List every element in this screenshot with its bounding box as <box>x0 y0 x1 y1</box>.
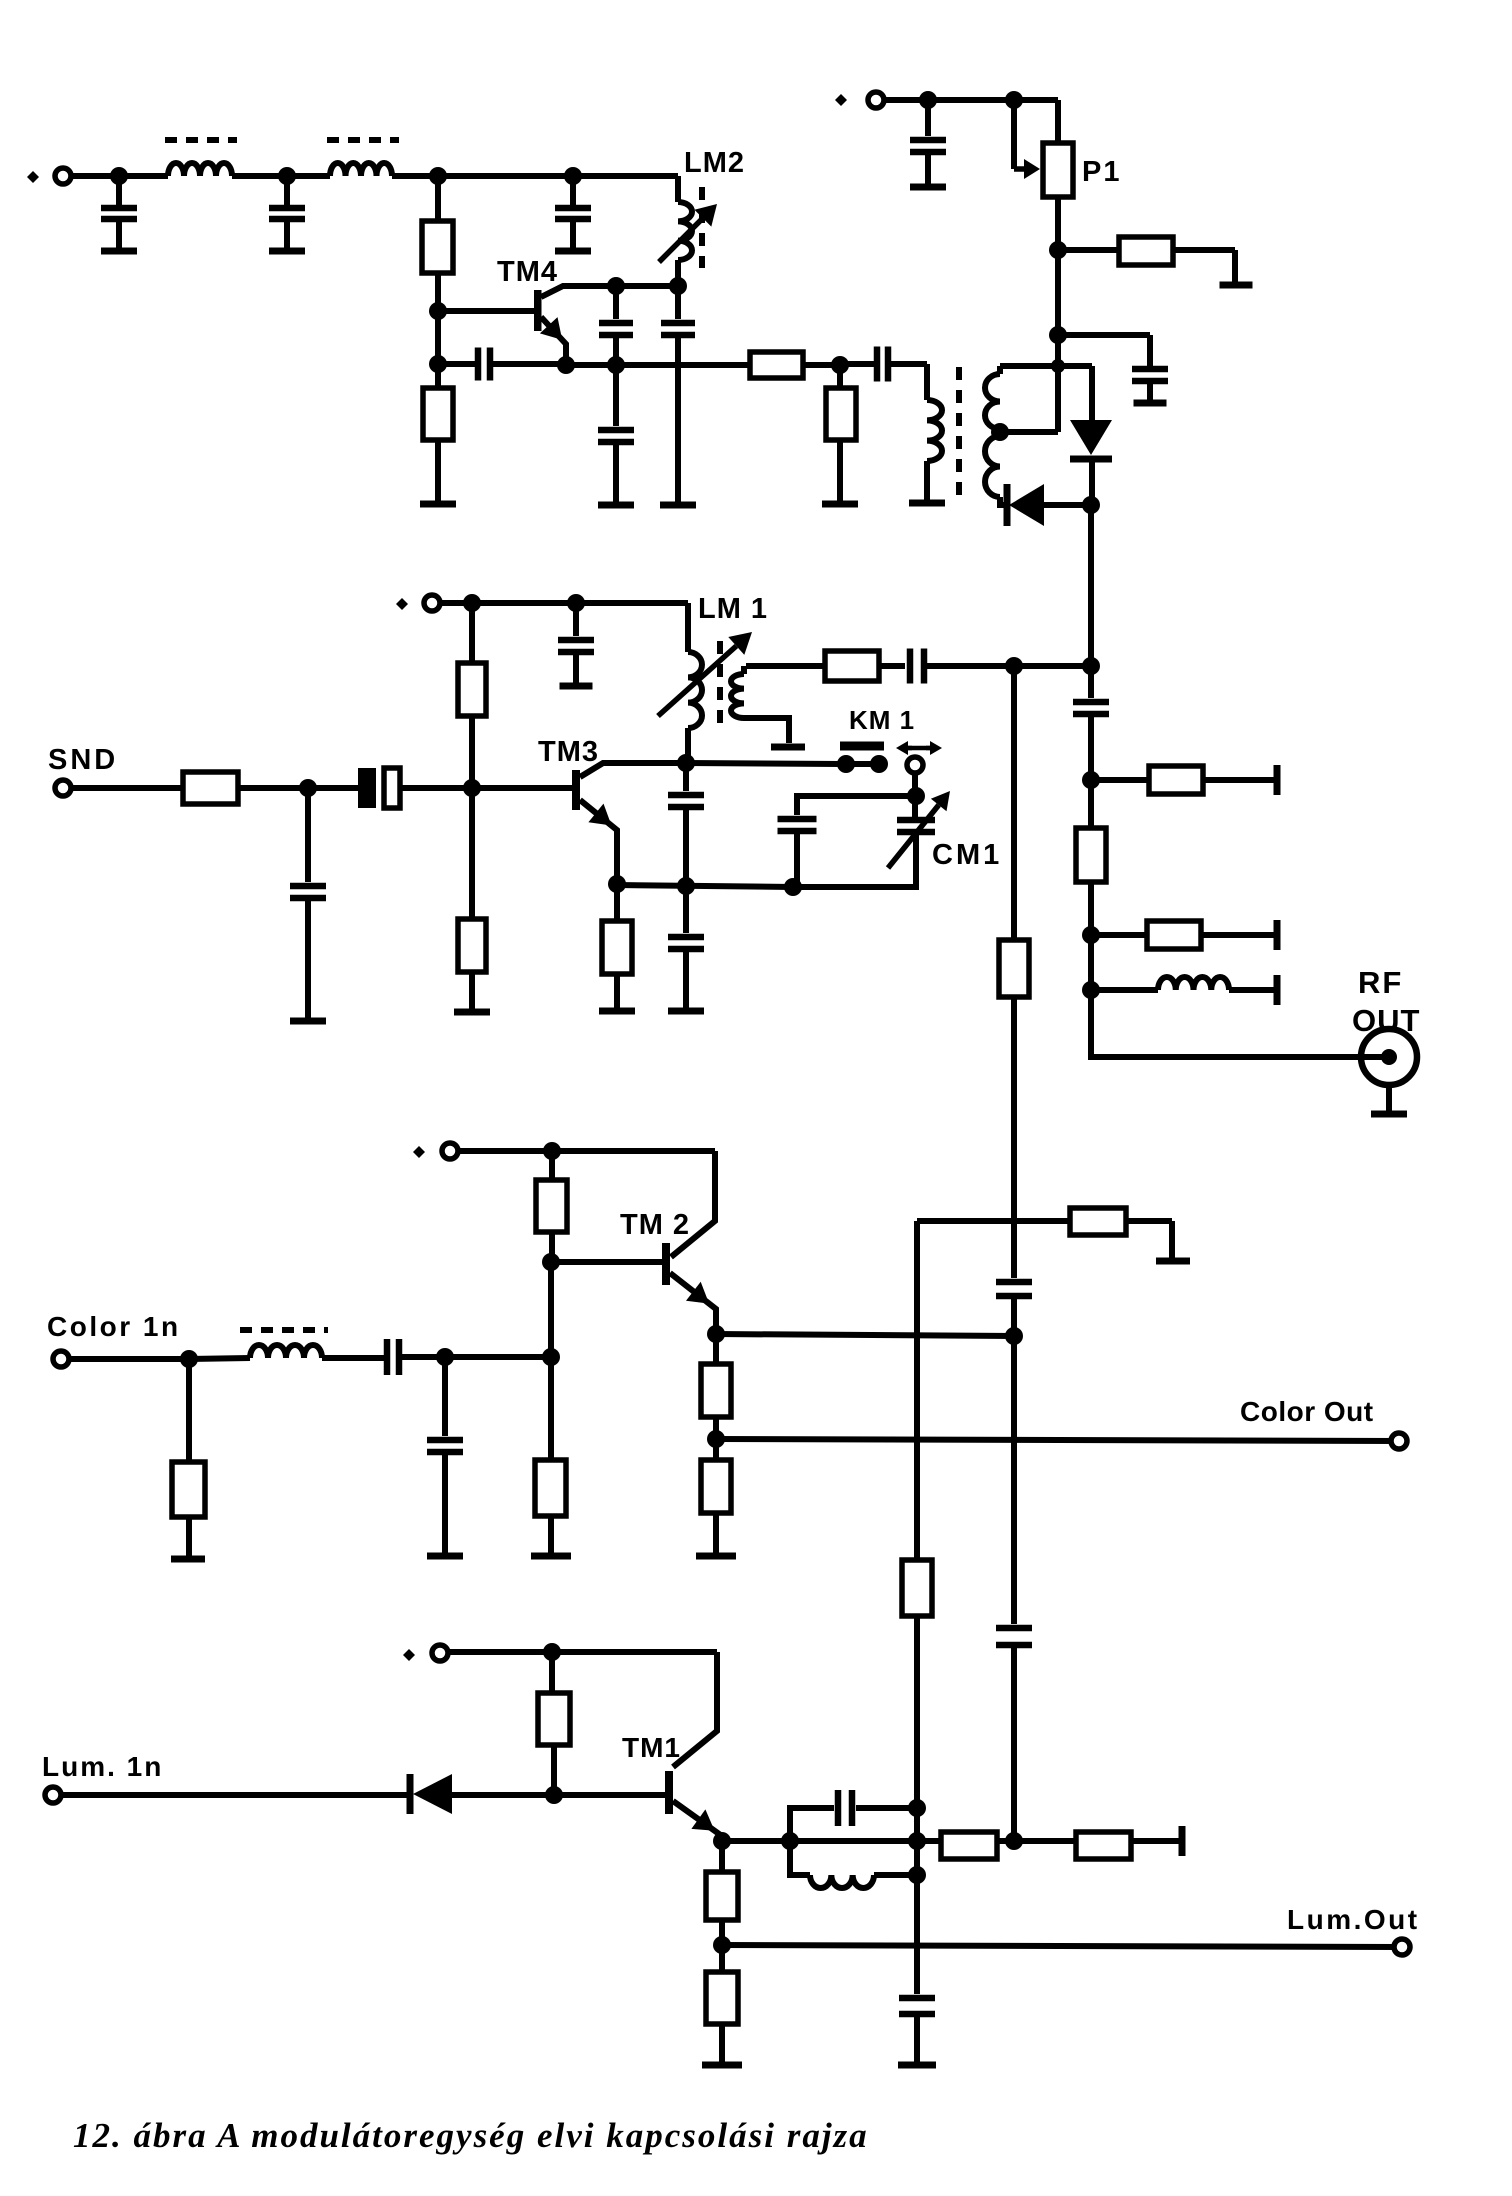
resistor R19 input termination <box>186 1359 192 1462</box>
node P1 lower junction <box>1049 241 1067 259</box>
svg-text:Lum. 1n: Lum. 1n <box>42 1751 163 1782</box>
terminal top-left V+ input <box>55 168 71 184</box>
resistor R10 TM3 emitter <box>614 884 620 921</box>
diode D3 clamp <box>407 1774 414 1814</box>
wire Color Out line <box>716 1439 1399 1441</box>
node C21 junction <box>436 1348 454 1366</box>
node CM1 top junction <box>907 787 925 805</box>
node R3-R4 junction <box>831 356 849 374</box>
transformer TR1 primary <box>888 361 927 367</box>
resistor R25 TM1 emitter upper <box>719 1841 725 1872</box>
node collector-C5 <box>607 277 625 295</box>
svg-text:CM1: CM1 <box>932 839 1002 871</box>
capacitor C7 emitter bypass <box>613 365 619 426</box>
node TM4 base <box>429 302 447 320</box>
node RF divider top <box>1082 771 1100 789</box>
resistor R12 divider <box>1088 780 1094 828</box>
node C14 bottom <box>677 877 695 895</box>
wire detector output down <box>1088 505 1094 666</box>
switch KM1 left contact <box>837 755 855 773</box>
resistor R4 to ground <box>837 365 843 388</box>
terminal Lum Out <box>1394 1939 1410 1955</box>
capacitor C2 to ground <box>284 176 290 205</box>
svg-text:TM 2: TM 2 <box>620 1209 690 1241</box>
wire middle V+ rail <box>440 600 688 606</box>
wire TM3 base <box>472 785 572 791</box>
transistor TM1 <box>665 1771 673 1814</box>
plus mark color supply <box>413 1146 425 1158</box>
svg-text:TM4: TM4 <box>497 256 558 288</box>
terminal lum V+ input <box>432 1645 448 1661</box>
terminal SND input <box>55 780 71 796</box>
svg-text:TM3: TM3 <box>538 736 599 768</box>
node C16 bottom <box>784 878 802 896</box>
wire emitter to LC <box>722 1838 790 1844</box>
wire base bias down <box>548 1262 554 1357</box>
capacitor C19 bus <box>996 1625 1032 1632</box>
capacitor C11 rail bypass <box>573 603 579 636</box>
capacitor C1 to ground <box>116 176 122 205</box>
node junction R22 top <box>543 1643 561 1661</box>
terminal Color In <box>53 1351 69 1367</box>
resistor R9 TM3 base lower <box>469 788 475 919</box>
resistor R22 TM1 base feed <box>549 1652 555 1693</box>
wire feed vertical <box>914 1221 920 1560</box>
resistor R16 feed <box>902 1560 932 1616</box>
wire TM4 base <box>438 308 534 314</box>
capacitor C20 color coupling <box>384 1339 391 1375</box>
wire TM2 base <box>551 1259 662 1265</box>
node junction at C9 <box>919 91 937 109</box>
wire to RF connector <box>1091 990 1362 1057</box>
node junction TM4 feed <box>429 167 447 185</box>
resistor R3 oscillator coupling <box>750 352 803 378</box>
wire to transformer center tap <box>1055 335 1061 432</box>
node bias-colorin junction <box>542 1348 560 1366</box>
node P1 wiper feed <box>1005 91 1023 109</box>
wire top-left V+ rail <box>71 173 168 179</box>
resistor R13 to pin <box>1091 932 1147 938</box>
svg-text:RF: RF <box>1358 965 1403 1000</box>
resistor R2 TM4 base to ground <box>435 364 441 388</box>
capacitor C9 to ground <box>925 100 931 136</box>
wire color input <box>69 1356 189 1362</box>
node RF divider low <box>1082 981 1100 999</box>
resistor R11 to pin <box>1091 777 1149 783</box>
inductor L4 with core <box>189 1358 250 1359</box>
wire collector to LM2 bottom <box>616 283 678 289</box>
transistor TM4 <box>534 290 542 331</box>
node TR1 center tap <box>991 423 1009 441</box>
resistor R23 lum series <box>917 1838 941 1844</box>
wire lum V+ rail <box>448 1649 717 1655</box>
plus mark top-left supply <box>27 171 39 183</box>
svg-text:Color Out: Color Out <box>1240 1396 1374 1427</box>
transformer TR1 secondary top half <box>997 366 1003 374</box>
capacitor C5 <box>613 286 619 319</box>
resistor R14 bus <box>999 940 1029 997</box>
node C10 junction <box>1049 326 1067 344</box>
inductor L5 peaking <box>790 1841 810 1875</box>
capacitor C18 bus <box>996 1279 1032 1286</box>
node LM2 bottom junction <box>669 277 687 295</box>
node SND filter junction <box>299 779 317 797</box>
capacitor C10 to ground <box>1058 332 1150 338</box>
resistor R7 RF coupling <box>825 651 879 681</box>
node TM3 base <box>463 779 481 797</box>
capacitor C6 LM2 bottom <box>675 286 681 319</box>
inductor LM1 variable <box>685 603 691 652</box>
wire collector to KM1 <box>686 763 840 764</box>
capacitor C15 emitter to ground <box>683 886 689 933</box>
node TM1 emitter <box>713 1832 731 1850</box>
capacitor C17 detector <box>1088 666 1094 698</box>
svg-text:LM 1: LM 1 <box>698 593 768 625</box>
wire top-right V+ rail <box>884 97 1058 103</box>
node C5 bottom <box>607 356 625 374</box>
transistor TM3 <box>572 770 580 810</box>
potentiometer P1 <box>1043 143 1073 197</box>
node RF divider mid <box>1082 926 1100 944</box>
wire color V+ rail <box>458 1148 715 1154</box>
node junction at C5 top <box>564 167 582 185</box>
node TM3 collector - LM1 <box>677 754 695 772</box>
terminal middle V+ input <box>424 595 440 611</box>
inductor LM2 variable <box>573 173 678 179</box>
inductor L3 to pin <box>1091 987 1158 993</box>
node color input junction <box>180 1350 198 1368</box>
diode D2 detector <box>1004 484 1011 526</box>
wire LM1 secondary to R7 <box>746 663 825 669</box>
capacitor C14 collector-emitter <box>683 763 689 791</box>
resistor R15 to ground <box>1070 1208 1126 1235</box>
node coupling-detector junction <box>1082 657 1100 675</box>
wire SND input <box>71 785 183 791</box>
switch KM1 slide arrow <box>903 746 935 751</box>
wire P1 net down <box>1055 250 1061 335</box>
node coupling-vertical junction <box>1005 657 1023 675</box>
wire TM4 emitter row <box>566 362 750 368</box>
wire cap top link <box>797 796 916 815</box>
node TM3 emitter <box>608 875 626 893</box>
node LC right <box>908 1832 926 1850</box>
terminal Color Out <box>1391 1433 1407 1449</box>
switch KM1 right contact <box>870 755 888 773</box>
resistor R18 TM2 base lower <box>548 1357 554 1460</box>
node LC left <box>781 1832 799 1850</box>
resistor R26 TM1 emitter lower <box>719 1945 725 1972</box>
diode D1 detector <box>1089 366 1095 420</box>
svg-text:Lum.Out: Lum.Out <box>1287 1904 1420 1935</box>
node TM1 base junction <box>545 1786 563 1804</box>
wire Lum Out line <box>722 1945 1402 1947</box>
wire KM1 pole down <box>912 773 918 818</box>
resistor R20 TM2 emitter upper <box>713 1334 719 1364</box>
pin stub bar 4 <box>1179 1826 1186 1856</box>
capacitor C23 lum bypass <box>914 1875 920 1994</box>
svg-text:12. ábra A modulátoregység elv: 12. ábra A modulátoregység elvi kapcsolá… <box>73 2116 869 2155</box>
transistor TM2 <box>662 1243 670 1285</box>
node color out junction <box>707 1430 725 1448</box>
node bus TM2 emitter junction <box>1005 1327 1023 1345</box>
node LC coil right <box>908 1866 926 1884</box>
resistor R24 to pin <box>1014 1838 1076 1844</box>
inductor L1 with core <box>168 163 232 176</box>
capacitor C13 SND to ground <box>305 788 311 882</box>
svg-text:LM2: LM2 <box>684 147 745 179</box>
wire P1 wiper <box>1011 100 1017 169</box>
node TM4 emitter row left <box>429 355 447 373</box>
wire relay feed row <box>917 1218 1070 1224</box>
pin stub bar 1 <box>1274 765 1281 795</box>
wire secondary top to diode D1 <box>1000 363 1092 369</box>
pin stub bar 3 <box>1274 975 1281 1005</box>
wire main vertical bus upper <box>1011 666 1017 940</box>
capacitor C16 fixed padder <box>778 816 817 823</box>
capacitor C3 feedback <box>438 361 478 367</box>
capacitor C12 RF coupling <box>879 663 905 669</box>
wire divider mid-low <box>1088 935 1094 990</box>
node junction at C1 <box>110 167 128 185</box>
coupling coil LM1 secondary <box>741 666 747 674</box>
node junction R17 top <box>543 1142 561 1160</box>
switch KM1 bar <box>840 742 884 751</box>
terminal top-right V+ input <box>868 92 884 108</box>
plus mark middle supply <box>396 598 408 610</box>
node junction C11 top <box>567 594 585 612</box>
terminal Lum In <box>45 1787 61 1803</box>
node D1-D2 junction <box>1082 496 1100 514</box>
transformer TR1 secondary bottom half <box>985 436 1000 497</box>
node secondary-P1 tee <box>1051 359 1065 373</box>
wire lum input <box>61 1792 408 1798</box>
node lum bus junction <box>1005 1832 1023 1850</box>
node LC cap right <box>908 1799 926 1817</box>
svg-text:Color 1n: Color 1n <box>47 1311 181 1342</box>
resistor R21 TM2 emitter lower <box>713 1439 719 1460</box>
capacitor C8 coupling to mixer <box>840 361 877 367</box>
resistor R17 TM2 collector load <box>549 1151 555 1180</box>
node junction R6 top <box>463 594 481 612</box>
svg-text:SND: SND <box>48 744 118 776</box>
resistor R8 SND series <box>183 772 238 804</box>
pin stub bar 2 <box>1274 920 1281 950</box>
wire R1 to emitter row <box>435 311 441 364</box>
wire main vertical bus lower <box>1011 1336 1017 1624</box>
capacitor CM1 trimmer <box>897 817 935 824</box>
svg-text:KM 1: KM 1 <box>849 705 915 735</box>
wire TM2 emitter to bus <box>716 1334 1014 1336</box>
resistor R5 to ground <box>1058 247 1119 253</box>
wire LC mid <box>790 1838 917 1844</box>
plus mark top-right supply <box>835 94 847 106</box>
connector RF OUT <box>1361 1029 1417 1085</box>
resistor R6 TM3 base bias upper <box>469 603 475 663</box>
capacitor C4a rail bypass <box>570 176 576 205</box>
node junction at C2 <box>278 167 296 185</box>
terminal color V+ input <box>442 1143 458 1159</box>
node TM2 emitter <box>707 1325 725 1343</box>
transformer TR1 core <box>956 367 962 497</box>
capacitor C21 to ground <box>442 1357 448 1436</box>
svg-text:P1: P1 <box>1082 156 1121 188</box>
resistor R1 TM4 collector bias <box>435 176 441 221</box>
capacitor C22 peaking <box>790 1808 834 1841</box>
node TM2 base junction <box>542 1253 560 1271</box>
ceramic filter X1 <box>358 768 376 808</box>
svg-text:TM1: TM1 <box>622 1732 681 1763</box>
wire emitter row to CM1 <box>793 834 916 887</box>
node lum out junction <box>713 1936 731 1954</box>
wire emitter row <box>617 885 793 887</box>
terminal KM1 pole <box>907 757 923 773</box>
node TM4 emitter <box>557 356 575 374</box>
inductor L2 with core <box>330 163 392 176</box>
plus mark lum supply <box>403 1649 415 1661</box>
